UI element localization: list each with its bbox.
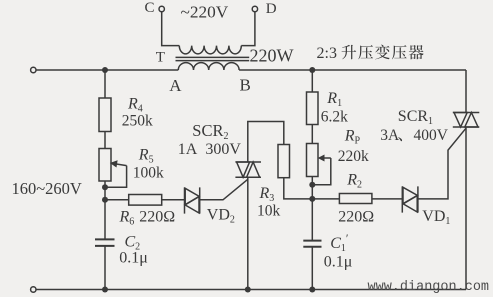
- potentiometer R5 wiper arrow: [116, 164, 127, 166]
- wire R3 bottom lead: [284, 178, 340, 199]
- svg-text:1A 300V: 1A 300V: [178, 141, 242, 158]
- resistor R6: [129, 195, 162, 206]
- wire RP bottom lead: [311, 177, 313, 241]
- resistor R1: [307, 92, 319, 125]
- node C1p-bottom-bus junction: [309, 287, 315, 293]
- svg-text:B: B: [240, 76, 251, 95]
- svg-text:160~260V: 160~260V: [12, 179, 82, 198]
- wire R6-VD2: [162, 199, 185, 201]
- wire top bus right: [239, 69, 466, 71]
- wire top bus left: [36, 69, 178, 71]
- wire VD1-gate: [418, 128, 466, 199]
- wire bottom bus: [36, 289, 466, 291]
- wire SCR2 cathode: [247, 177, 249, 289]
- wire right bus upper: [465, 70, 467, 113]
- svg-text:T: T: [156, 49, 165, 65]
- transformer T core: [176, 57, 250, 60]
- wire R4 top lead: [104, 70, 106, 98]
- wire C lead: [162, 12, 180, 46]
- svg-text:~220V: ~220V: [181, 3, 229, 22]
- transformer T primary winding: [178, 63, 239, 70]
- potentiometer RP wiper arrow: [324, 157, 331, 159]
- svg-text:0.1μ: 0.1μ: [324, 253, 353, 270]
- wire C1p bottom lead: [311, 247, 313, 290]
- svg-text:A: A: [169, 76, 182, 95]
- svg-text:220k: 220k: [338, 148, 369, 165]
- svg-text:400V: 400V: [414, 127, 449, 144]
- wire R1-RP: [311, 125, 313, 144]
- node C2-bottom-bus junction: [102, 287, 108, 293]
- svg-text:220W: 220W: [250, 46, 294, 66]
- wire D lead: [241, 12, 255, 46]
- wire R4-R5: [104, 132, 106, 149]
- wire R5 wiper return: [105, 166, 127, 188]
- terminal input bottom: [31, 287, 36, 292]
- potentiometer R5: [99, 149, 111, 182]
- capacitor C1p: [303, 241, 321, 247]
- potentiometer RP: [307, 144, 319, 177]
- node R2 branch junction: [309, 196, 315, 202]
- svg-text:2:3: 2:3: [317, 45, 337, 62]
- svg-text:www.diangon.com: www.diangon.com: [368, 280, 490, 295]
- node RP-wiper junction: [309, 182, 315, 188]
- svg-text:220Ω: 220Ω: [338, 208, 374, 225]
- wire VD2-gate: [200, 179, 248, 200]
- svg-text:10k: 10k: [257, 202, 281, 219]
- transformer T secondary winding: [179, 46, 241, 54]
- svg-text:D: D: [266, 1, 277, 17]
- wire right bus lower: [465, 127, 467, 290]
- terminal input top: [31, 67, 36, 72]
- wire R1 top lead: [311, 70, 313, 92]
- svg-text:220Ω: 220Ω: [139, 209, 175, 226]
- node R6 branch junction: [102, 197, 108, 203]
- wire R6 left lead: [105, 199, 129, 201]
- thyristor SCR2: [235, 162, 261, 177]
- svg-text:SCR1: SCR1: [398, 108, 433, 127]
- resistor R2: [339, 194, 372, 204]
- svg-text:0.1μ: 0.1μ: [119, 249, 148, 266]
- svg-text:100k: 100k: [133, 164, 164, 181]
- wire R2-VD1: [372, 198, 402, 200]
- svg-text:3A: 3A: [380, 127, 400, 144]
- resistor R3: [278, 145, 290, 178]
- svg-text:SCR2: SCR2: [192, 121, 228, 142]
- diac VD1: [402, 186, 418, 212]
- resistor R4: [99, 98, 111, 132]
- node SCR2-bottom-bus junction: [245, 287, 251, 293]
- svg-text:6.2k: 6.2k: [321, 109, 348, 126]
- wire C2 bottom lead: [104, 246, 106, 290]
- node junction top-left: [102, 67, 108, 73]
- wire SCR2 anode to R3 top: [248, 122, 284, 163]
- node R5-wiper junction: [102, 184, 108, 190]
- wire R5 bottom lead: [104, 181, 106, 239]
- svg-text:250k: 250k: [122, 112, 153, 129]
- node R1 top junction: [309, 67, 315, 73]
- svg-text:C: C: [145, 0, 155, 16]
- terminal C: [159, 6, 164, 11]
- diac VD2: [185, 187, 200, 213]
- capacitor C2: [95, 239, 115, 246]
- terminal D: [252, 6, 257, 11]
- thyristor SCR1: [453, 113, 480, 128]
- wire RP wiper return: [312, 158, 331, 185]
